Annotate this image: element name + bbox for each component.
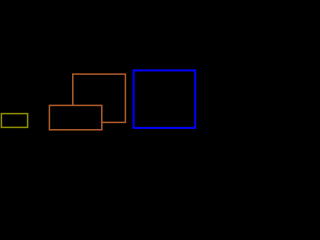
orange rectangle (upper, behind) xyxy=(73,74,126,122)
blue rectangle xyxy=(134,70,196,128)
orange rectangle (lower, front, black fill) xyxy=(49,105,101,129)
yellow rectangle xyxy=(1,114,27,128)
